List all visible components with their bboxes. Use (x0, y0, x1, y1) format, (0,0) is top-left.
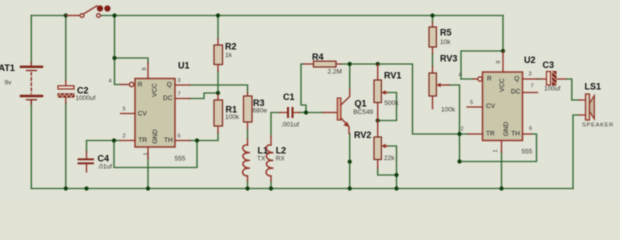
svg-text:VCC: VCC (151, 83, 158, 97)
node top rail / R2 (216, 13, 220, 17)
svg-text:9v: 9v (5, 80, 13, 87)
wire C1 right node (300, 112, 307, 114)
wire collector node to U2 TR (378, 64, 469, 134)
svg-text:R5: R5 (440, 28, 452, 38)
wire U2 Q to C3 (537, 78, 541, 80)
svg-text:BAT1: BAT1 (0, 63, 15, 73)
svg-text:R2: R2 (225, 42, 237, 52)
wire battery bottom (30, 101, 32, 189)
switch SW1 (66, 5, 111, 17)
svg-text:555: 555 (522, 149, 533, 156)
svg-text:2: 2 (461, 127, 464, 133)
wire R5 top (432, 16, 434, 23)
wire R2 bottom to node (217, 71, 219, 93)
loudspeaker LS1 (579, 94, 594, 120)
potentiometer RV3 (429, 67, 449, 109)
wire speaker bottom (573, 115, 579, 189)
svg-text:2: 2 (123, 134, 126, 140)
wire node to R1 top (217, 93, 219, 95)
wire U1 Q to R3 (189, 85, 248, 93)
wire bottom rail (31, 188, 573, 190)
svg-text:7: 7 (178, 92, 181, 98)
node rail / U2 GND (499, 186, 503, 190)
wire RV2 bottom jog (378, 168, 397, 175)
wire C4 to U1 TR (87, 141, 121, 152)
svg-text:Q: Q (167, 82, 172, 89)
node U1 TH / R1 (195, 138, 199, 142)
svg-text:C2: C2 (77, 86, 89, 96)
node U1 vcc tap (112, 56, 116, 60)
wire U1 TH to R1 (189, 133, 218, 141)
svg-text:SPEAKER: SPEAKER (582, 123, 614, 129)
svg-text:RV1: RV1 (384, 71, 401, 81)
wire switch to U1 reset (115, 16, 121, 85)
svg-text:R: R (138, 82, 143, 89)
node RV1 tap (376, 118, 380, 122)
svg-text:.001uf: .001uf (281, 122, 299, 129)
svg-text:100k: 100k (225, 114, 240, 121)
wire U2 GND down (501, 152, 503, 189)
wire battery top (30, 16, 32, 63)
svg-text:10k: 10k (440, 39, 451, 46)
capacitor C1 (280, 108, 300, 117)
svg-text:DC: DC (163, 95, 173, 102)
node RV1 top (376, 62, 380, 66)
wire C2 bottom (65, 103, 67, 189)
svg-text:RV2: RV2 (354, 130, 371, 140)
wire top rail right segment (101, 15, 503, 17)
svg-text:1: 1 (493, 149, 499, 152)
node rail / L2 (269, 186, 273, 190)
svg-text:.01uf: .01uf (98, 164, 113, 171)
svg-text:4: 4 (459, 72, 462, 78)
node rail / emitter (348, 186, 352, 190)
wire U2 reset loop (461, 51, 503, 79)
svg-text:1: 1 (143, 152, 149, 155)
svg-text:TR: TR (486, 131, 495, 138)
svg-text:TX: TX (257, 155, 266, 162)
wire L1 bottom (247, 181, 249, 189)
svg-text:7: 7 (531, 83, 534, 89)
svg-text:C1: C1 (283, 92, 295, 102)
battery BAT1 (21, 63, 42, 105)
svg-text:GND: GND (503, 122, 510, 137)
wire top rail left segment (31, 15, 66, 17)
inductor L1 TX coil (243, 145, 250, 176)
svg-text:Q: Q (514, 75, 519, 82)
op-amp U1 555 timer (109, 61, 191, 163)
node rail / RV2 (394, 186, 398, 190)
resistor R4 (304, 61, 342, 67)
wire RV2 tap to rail (396, 175, 398, 189)
svg-text:VCC: VCC (499, 78, 506, 92)
svg-text:U2: U2 (524, 55, 536, 65)
svg-text:4: 4 (109, 79, 112, 85)
wire RV2 wiper loop (387, 146, 397, 175)
wire Q1 emitter to rail (349, 134, 351, 189)
potentiometer RV2 (374, 121, 388, 169)
svg-text:TR: TR (138, 137, 147, 144)
svg-text:DC: DC (511, 88, 521, 95)
node top rail / switch right (112, 13, 116, 17)
svg-text:R: R (487, 76, 492, 83)
svg-text:U1: U1 (178, 61, 190, 71)
node U2 vcc / reset (501, 49, 505, 53)
wire Q1 collector riser (349, 64, 351, 89)
wire R2 top (217, 16, 219, 40)
capacitor C3 (540, 71, 566, 86)
node emitter mid (348, 160, 352, 164)
svg-text:8: 8 (142, 67, 148, 70)
wire RV1 wiper loop (379, 93, 397, 121)
node top rail / C2 (64, 13, 68, 17)
svg-text:22k: 22k (384, 155, 395, 162)
wire U1 DC jog to R2/R1 node (189, 93, 218, 99)
svg-text:5: 5 (470, 100, 473, 106)
svg-text:C4: C4 (98, 154, 110, 164)
node U2 TR-TH corner (457, 159, 461, 163)
potentiometer RV1 (374, 64, 388, 121)
resistor R2 (214, 39, 223, 71)
wire U1 TR-TH under loop (114, 141, 197, 168)
svg-text:100uf: 100uf (544, 85, 560, 92)
svg-text:500k: 500k (384, 100, 399, 107)
svg-text:LS1: LS1 (585, 82, 602, 92)
svg-text:8: 8 (496, 60, 502, 63)
svg-text:5: 5 (123, 107, 126, 113)
svg-text:1k: 1k (225, 52, 233, 59)
wire R4 right to collector node (341, 63, 378, 65)
node rail / C2 (64, 186, 68, 190)
svg-text:6: 6 (529, 126, 532, 132)
wire RV3 wiper to U2 TR/TH (448, 85, 537, 162)
wire U2 vcc riser (502, 16, 504, 52)
svg-text:680e: 680e (253, 108, 268, 115)
wire U1 vcc riser (115, 58, 149, 63)
node RV2 tap (394, 173, 398, 177)
wire L2 bottom (270, 181, 272, 189)
node rail / L1 (245, 186, 249, 190)
wire U1 GND down (147, 158, 149, 189)
wire L2 top to C1 (271, 113, 280, 137)
svg-text:R3: R3 (253, 98, 265, 108)
svg-text:CV: CV (486, 103, 496, 110)
svg-text:TH: TH (511, 131, 520, 138)
wire C3 to speaker (566, 79, 580, 100)
svg-text:3: 3 (529, 72, 532, 78)
svg-text:C3: C3 (543, 60, 555, 70)
node C1 / R4 / base (304, 110, 308, 114)
wire node to Q1 base (306, 112, 323, 114)
node rail / U1 GND (146, 186, 150, 190)
node rail / C4 (84, 186, 88, 190)
capacitor C2 (58, 81, 75, 104)
resistor R1 (214, 95, 223, 134)
svg-text:TH: TH (164, 137, 173, 144)
svg-text:100k: 100k (441, 107, 456, 114)
svg-text:555: 555 (175, 156, 186, 163)
node U2 TR / RV3 (457, 132, 461, 136)
inductor L2 RX coil (266, 145, 273, 176)
resistor R3 (244, 93, 253, 129)
capacitor C4 (79, 152, 94, 173)
wire R5 to RV3 (432, 54, 434, 67)
svg-text:2.2M: 2.2M (328, 69, 342, 76)
resistor R5 (429, 23, 436, 54)
svg-text:R4: R4 (312, 52, 324, 62)
node U1 TR / C4 (112, 138, 116, 142)
svg-text:RV3: RV3 (440, 54, 457, 64)
svg-text:R1: R1 (226, 105, 238, 115)
svg-text:BC549: BC549 (353, 109, 373, 116)
svg-text:CV: CV (138, 110, 148, 117)
wire R3 to L1 (247, 129, 249, 140)
svg-text:L2: L2 (276, 146, 287, 156)
op-amp U2 555 timer (459, 52, 538, 156)
svg-text:GND: GND (152, 129, 159, 144)
node collector / R4 (348, 62, 352, 66)
svg-text:3: 3 (178, 78, 181, 84)
svg-text:RX: RX (276, 155, 286, 162)
node top rail / R5 (430, 13, 434, 17)
svg-text:Q1: Q1 (355, 99, 367, 109)
wire node to R4 left (301, 64, 306, 113)
svg-text:1000uf: 1000uf (76, 95, 96, 102)
node R2 / R1 / DC (216, 91, 220, 95)
svg-text:6: 6 (178, 134, 181, 140)
transistor Q1 BC549 (323, 89, 350, 134)
wire C2 top (65, 16, 67, 81)
